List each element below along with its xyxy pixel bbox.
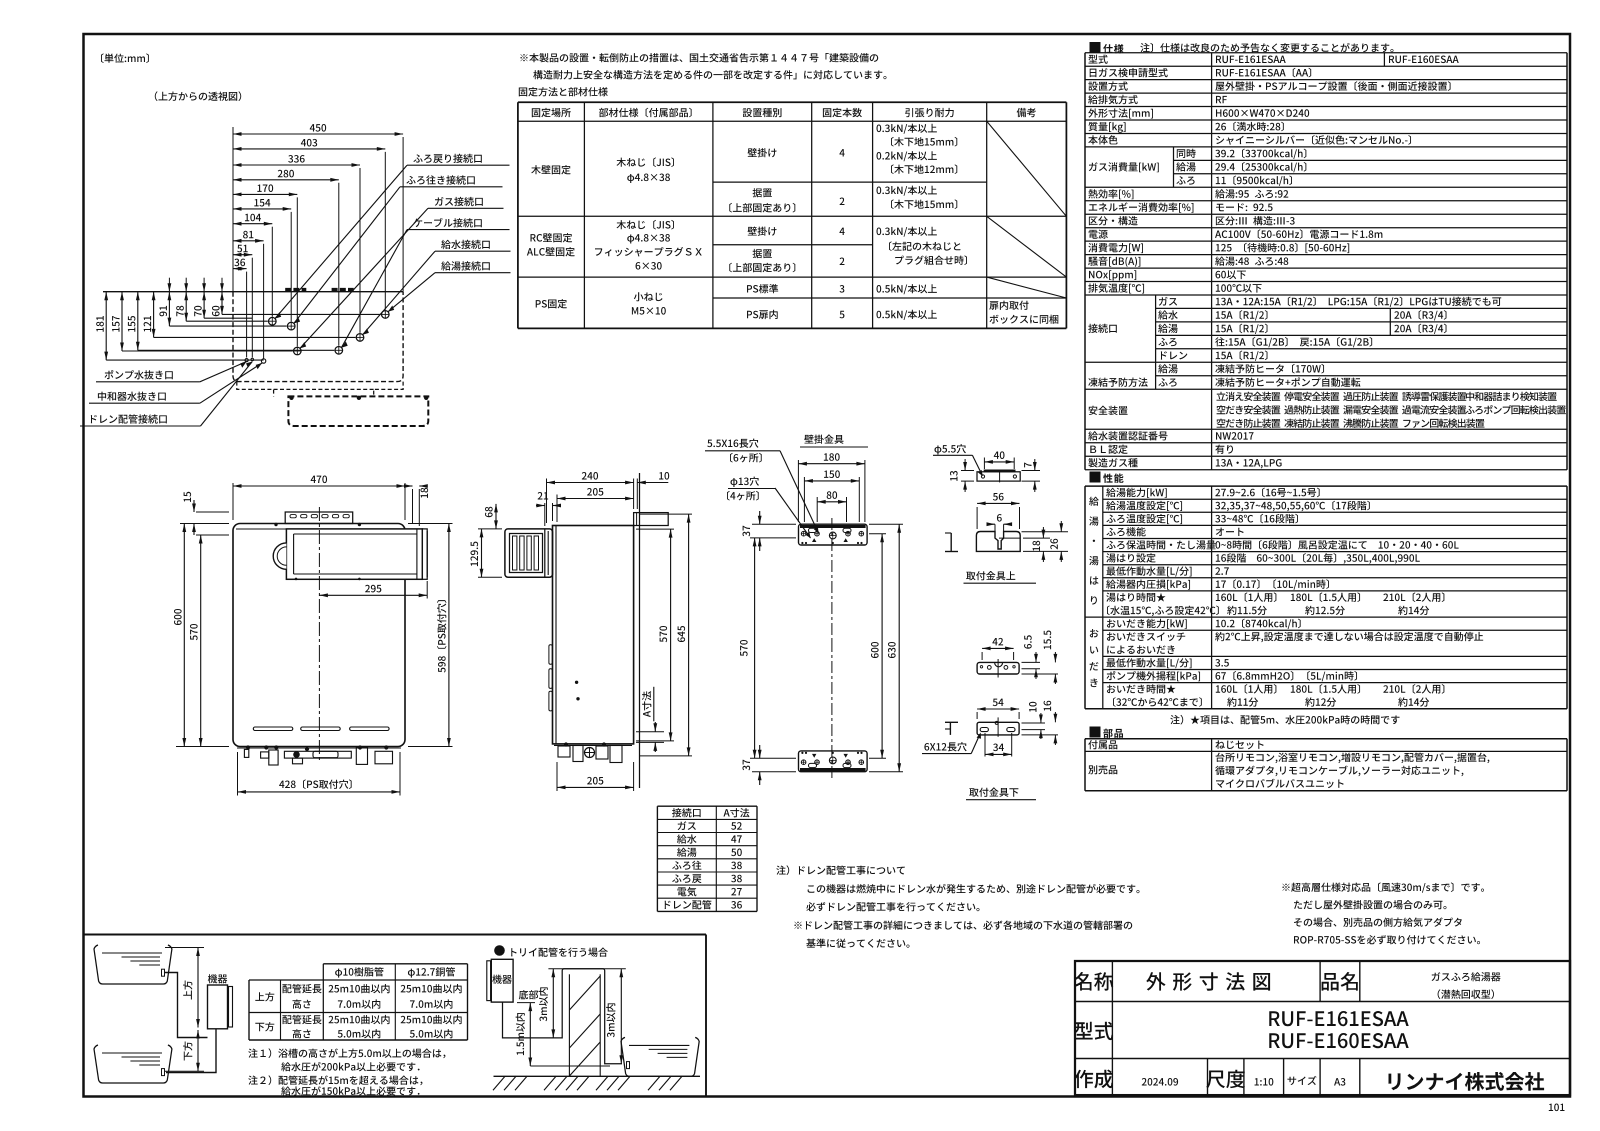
anchor bolts — [289, 396, 293, 400]
installation note — [520, 53, 878, 62]
dim 6.5 — [1022, 661, 1041, 663]
bracket dim 37 bottom — [759, 745, 761, 758]
pipe upper bath to unit — [165, 973, 208, 1038]
fix table PS texts — [536, 299, 567, 308]
pipe unit to lower bath — [166, 1029, 216, 1073]
bracket dim 37 top — [759, 511, 761, 524]
A-dim table — [657, 805, 757, 807]
dim 205 bottom — [556, 762, 558, 791]
dim 21 — [538, 492, 548, 500]
bracket dim 150 — [803, 477, 805, 522]
torii wall — [568, 974, 570, 1076]
fix table remark diagonals — [987, 121, 1067, 216]
side view front slots — [549, 645, 552, 665]
dim 26 — [1022, 531, 1069, 533]
front view body — [233, 524, 405, 747]
bracket leaders — [780, 451, 819, 533]
torii pipe — [503, 969, 623, 1064]
performance header — [1090, 472, 1101, 483]
bracket bottom plate — [799, 751, 868, 772]
torii dims — [548, 968, 625, 970]
side view dots — [575, 681, 578, 684]
right-side port labels — [413, 154, 481, 163]
side view top flange — [634, 513, 669, 526]
perspective vertical dimensions — [105, 292, 107, 360]
bracket labels — [707, 439, 758, 448]
side view body — [553, 526, 634, 744]
title row2 — [1075, 1022, 1113, 1040]
6X12 label — [924, 742, 966, 751]
wall line right — [639, 473, 641, 788]
dim 470 — [232, 483, 234, 520]
perspective: depth lines — [106, 359, 263, 361]
dim 40 — [983, 458, 985, 470]
highrise note — [1282, 882, 1484, 892]
performance grid — [1085, 485, 1567, 487]
perspective: port circles — [269, 317, 277, 325]
dim 13 — [961, 470, 974, 472]
spec rows — [1089, 55, 1108, 64]
spec header — [1090, 42, 1101, 53]
dim 15 — [196, 511, 229, 513]
perspective horizontal dimensions — [232, 127, 234, 292]
lower fitting plate D — [977, 722, 1019, 735]
dim 600 left — [180, 523, 229, 525]
dim 56 — [976, 507, 978, 529]
title row1 — [1074, 972, 1113, 991]
front view exhaust box — [286, 529, 422, 579]
fix table row RC texts — [530, 233, 572, 242]
ground hatching — [493, 1076, 505, 1090]
kiki unit box — [208, 974, 228, 983]
torii title — [494, 945, 505, 956]
front view centerline — [318, 507, 320, 648]
fix table header texts — [532, 108, 571, 117]
lower bathtub — [94, 1045, 172, 1083]
parts grid — [1085, 738, 1567, 740]
dim 240 — [546, 479, 548, 524]
piping notes — [248, 1048, 445, 1058]
dim 7 — [1022, 470, 1041, 472]
dim 598 PS — [408, 523, 453, 525]
performance note — [1170, 715, 1399, 725]
bracket dim 600 — [869, 533, 886, 535]
perspective: mount plate pieces — [285, 288, 306, 292]
small drain ports — [245, 359, 248, 362]
phi5.5 label — [935, 444, 966, 454]
dim 295 — [426, 581, 428, 599]
fix table row1 texts — [531, 165, 570, 174]
bracket centerline — [831, 518, 833, 640]
dim 54 — [976, 712, 978, 719]
perspective: lower transition dashed — [237, 382, 274, 397]
kaho dim — [197, 1030, 199, 1071]
bottom box border — [84, 934, 707, 936]
side view bottom pipes — [554, 744, 632, 746]
front view top bracket strip — [285, 512, 353, 524]
piping length table — [323, 963, 467, 965]
plate B with notch — [976, 532, 1020, 552]
dim 428 PS — [237, 752, 239, 796]
fitting-lower label — [969, 788, 1018, 797]
fitting-upper label — [966, 571, 1015, 580]
perspective: unit outline dashed — [233, 292, 403, 382]
dim 42 — [981, 652, 983, 660]
datum mark lower — [949, 722, 951, 735]
safety row — [1089, 406, 1128, 415]
top fitting plate A — [977, 472, 1020, 481]
datum mark upper — [950, 533, 952, 552]
dim 570 left — [196, 534, 229, 536]
exhaust bulge — [273, 543, 286, 569]
dim 68 — [495, 504, 497, 529]
dim 129.5 — [478, 528, 502, 530]
drain note header — [776, 865, 905, 875]
bracket dim 630 — [869, 523, 903, 525]
perspective: anchor frame dashed — [288, 396, 428, 426]
bracket dim 80 — [816, 497, 818, 522]
bracket title — [804, 435, 843, 444]
dim 18 — [1023, 537, 1050, 539]
title row3 — [1207, 1059, 1209, 1096]
bottom-left labels — [105, 370, 173, 380]
dim 15.5 — [1022, 673, 1059, 675]
torii bathtub — [621, 1037, 699, 1076]
upper bathtub — [94, 945, 172, 984]
unit note — [101, 53, 149, 63]
fix table title — [519, 87, 608, 96]
dim 10 — [1022, 722, 1046, 724]
side view exhaust duct — [505, 529, 553, 577]
parts header — [1090, 727, 1101, 738]
front view bottom pipes — [237, 747, 401, 749]
dim 10 — [659, 472, 669, 480]
dim 570 right — [636, 528, 674, 530]
A dim label — [642, 691, 651, 717]
bracket dim 570 — [754, 538, 756, 758]
bracket top plate — [799, 524, 868, 545]
dim 205 top — [556, 495, 558, 523]
dim 16 — [1022, 734, 1059, 736]
dim 34 — [984, 733, 986, 757]
dim 645 right — [640, 513, 692, 515]
performance vertical group labels — [1089, 497, 1099, 506]
perspective view title — [155, 91, 241, 101]
ground line — [494, 1075, 701, 1077]
dim 6 — [987, 523, 995, 525]
perspective: wall line — [103, 291, 403, 293]
bracket dim 180 — [797, 460, 799, 522]
dim 18 — [412, 489, 414, 523]
joho dim — [165, 947, 204, 949]
title block frame — [1075, 961, 1570, 1095]
front louver slots — [253, 727, 292, 731]
lower fitting plate C — [977, 662, 1019, 674]
teibu label — [519, 990, 538, 999]
torii unit box — [491, 959, 513, 1002]
spec table grid — [1085, 52, 1567, 54]
page number — [1549, 1104, 1565, 1112]
performance rows — [1106, 488, 1167, 498]
fix table grid — [518, 101, 1067, 103]
